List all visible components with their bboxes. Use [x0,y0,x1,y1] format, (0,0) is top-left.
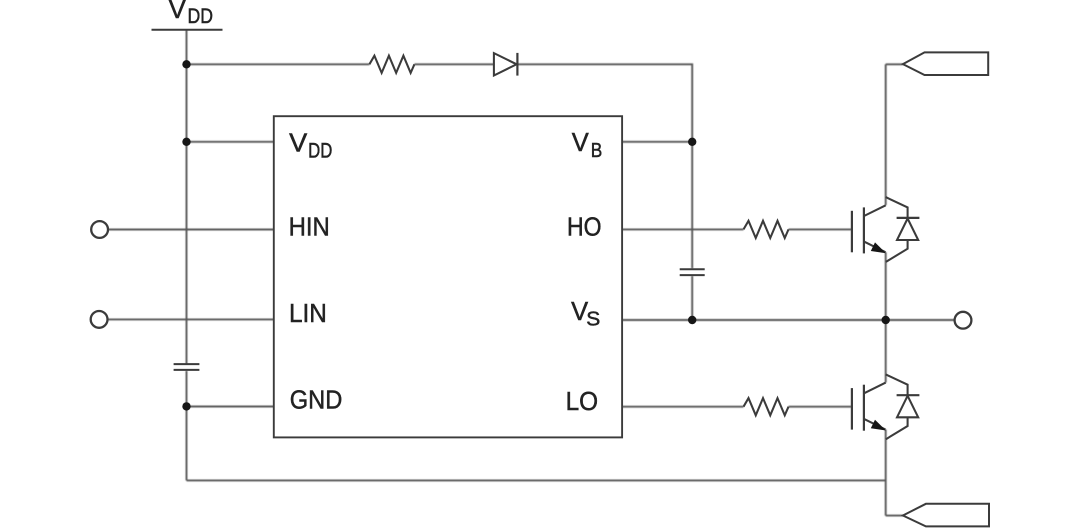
wire: ground return rail [187,479,886,481]
svg-text:B: B [591,140,603,162]
IC U1 (gate driver) body [274,116,622,437]
node: junction dot VB [688,138,696,146]
svg-text:LIN: LIN [289,298,327,328]
diode D1 (bootstrap) triangle [494,53,517,75]
wire: R2 to Q1 gate [789,228,852,230]
wire: VS down to Q2 collector [885,320,887,383]
resistor R1 (bootstrap) [369,56,414,73]
terminal tag positive bus [903,52,988,75]
wire: VDD vertical rail lower (below C1) [186,371,188,481]
node: junction dot VS-bootstrap [688,316,696,324]
transistor Q1 (high-side IGBT) gate bar [851,211,853,253]
pin label VDD [289,127,332,162]
transistor Q1 collector lead [864,205,886,216]
wire: R3 to Q2 gate [789,406,852,408]
transistor Q2 emitter lead [864,419,886,430]
wire: HIN pin [108,229,274,231]
wire: VS pin to output terminal [622,319,955,321]
node: junction dot VDD pin [182,138,190,146]
wire: diode D1 to VB corner [517,64,692,142]
terminal circle HIN input [91,221,108,238]
diode D3 cathode bar [897,394,920,396]
wire: LO pin to gate resistor R3 [622,406,743,408]
terminal tag negative bus [903,504,989,527]
svg-text:V: V [169,0,187,24]
diode D3 triangle [897,396,918,418]
wire: VB pin [622,141,692,143]
wire: GND pin [187,406,274,408]
wire: HO pin to gate resistor R2 [622,228,743,230]
wire: negative bus stub [886,515,903,517]
node: junction dot GND pin [182,402,190,410]
wire: Q2 emitter down to negative bus [885,430,887,516]
resistor R3 (LO gate) [744,398,789,415]
pin label VB [572,127,603,162]
wire: LIN pin [108,318,274,320]
transistor Q2 collector lead [864,383,886,394]
capacitor C2 (bootstrap) plates [680,269,705,275]
svg-text:HO: HO [567,211,602,241]
wire: resistor R1 to diode D1 [414,63,494,65]
svg-text:DD: DD [188,5,214,28]
diode D2 bottom lead [886,240,908,262]
wire: high-side collector rail [885,64,887,205]
diode D2 cathode bar [897,217,920,219]
capacitor C1 (VDD decoupling) plates [174,364,200,370]
diode D3 (Q2 freewheel) top lead [886,374,908,395]
supply VDD label [169,0,213,28]
supply VDD bar [152,29,223,31]
wire: top rail to bootstrap resistor [187,63,370,65]
terminal circle VS output [955,312,972,329]
svg-text:V: V [289,127,308,157]
wire: positive bus stub [886,63,903,65]
wire: VDD pin [187,141,274,143]
transistor Q2 emitter arrow [871,420,886,431]
transistor Q1 channel bar [863,207,865,253]
node: junction dot top rail [182,60,190,68]
wire: bootstrap cap branch upper [691,142,693,269]
svg-text:LO: LO [566,386,599,416]
wire: bootstrap cap branch lower [691,276,693,320]
terminal circle LIN input [91,311,108,328]
svg-text:V: V [572,127,590,157]
svg-text:HIN: HIN [289,212,330,242]
transistor Q1 emitter arrow [871,242,886,253]
transistor Q2 channel bar [863,385,865,431]
diode D2 (Q1 freewheel) top lead [886,197,908,218]
transistor Q2 (low-side IGBT) gate bar [851,388,853,430]
resistor R2 (HO gate) [744,221,789,238]
svg-text:GND: GND [290,385,343,415]
wire: VDD vertical rail upper [186,30,188,364]
diode D2 triangle [897,219,918,241]
diode D1 cathode bar [516,53,518,76]
node: junction dot VS-midpoint [882,316,890,324]
svg-text:DD: DD [308,139,332,162]
wire: Q1 emitter down to VS [885,252,887,320]
transistor Q1 emitter lead [864,242,886,253]
diode D3 bottom lead [886,417,908,439]
svg-text:S: S [586,308,600,330]
pin label VS [571,296,600,330]
